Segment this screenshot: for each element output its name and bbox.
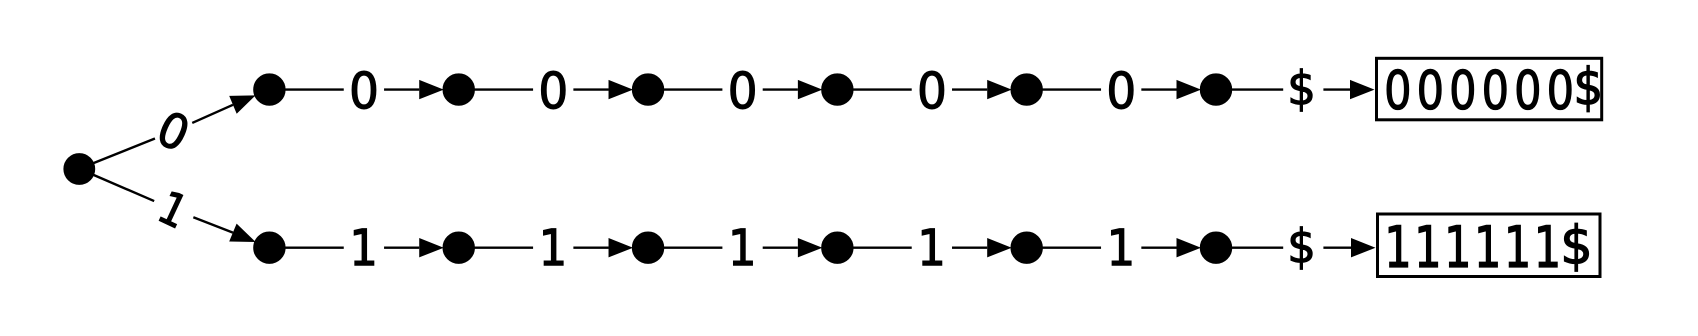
wire bottom 2-3 seg 2	[573, 246, 608, 248]
arrowhead into top node 1	[229, 95, 255, 113]
arrowhead into top node 5	[987, 80, 1012, 99]
wire bottom 5-6 seg 1	[1042, 246, 1101, 248]
top chain node 3	[633, 75, 663, 105]
wire bottom node 6 to $ label	[1231, 246, 1283, 248]
wire bottom 1-2 seg 2	[384, 246, 419, 248]
wire top node 6 to $ label	[1231, 88, 1283, 90]
edge label 1	[733, 229, 753, 265]
arrowhead into bottom node 6	[1177, 238, 1202, 257]
arrowhead into top node 6	[1177, 80, 1202, 99]
bottom chain node 3	[633, 233, 663, 263]
bottom chain node 2	[444, 233, 474, 263]
wire bottom 3-4 seg 1	[663, 246, 722, 248]
edge label 0	[731, 71, 755, 109]
top chain node 5	[1012, 75, 1042, 105]
leaf label 000000$	[1387, 65, 1599, 111]
wire top 4-5 seg 1	[852, 88, 911, 90]
edge label $ (bottom)	[1291, 227, 1312, 270]
arrowhead into top node 4	[798, 80, 823, 99]
wire bottom 1-2 seg 1	[284, 246, 343, 248]
edge label 1	[354, 229, 374, 265]
leaf label 111111$	[1389, 223, 1588, 271]
leaf box 000000$	[1377, 58, 1602, 120]
wire $ label to top box	[1323, 88, 1350, 90]
wire top 3-4 seg 1	[663, 88, 722, 90]
arrowhead into top node 3	[609, 80, 634, 99]
arrowhead into bottom node 3	[609, 238, 634, 257]
top chain node 6	[1201, 75, 1231, 105]
arrowhead into bottom box	[1351, 238, 1376, 257]
top chain node 2	[444, 75, 474, 105]
edge label 1	[1112, 229, 1132, 265]
wire $ label to bottom box	[1323, 246, 1351, 248]
wire top 5-6 seg 1	[1042, 88, 1101, 90]
wire bottom 3-4 seg 2	[763, 246, 798, 248]
edge label 0	[920, 71, 944, 109]
wire bottom 5-6 seg 2	[1141, 246, 1176, 248]
edge root to top chain, segment 2	[192, 105, 233, 123]
wire bottom 4-5 seg 2	[952, 246, 987, 248]
wire top 5-6 seg 2	[1141, 88, 1176, 90]
root node	[65, 154, 94, 183]
leaf box 111111$	[1378, 214, 1601, 277]
edge root to bottom chain, segment 1	[93, 175, 154, 201]
edge label 0	[1109, 71, 1133, 109]
wire bottom 2-3 seg 1	[474, 246, 533, 248]
edge label 1	[922, 229, 942, 265]
top chain node 1	[254, 75, 284, 105]
wire top 3-4 seg 2	[763, 88, 798, 90]
edge label 1 (sloped)	[159, 191, 189, 228]
edge label $ (top)	[1291, 69, 1312, 112]
edge root to bottom chain, segment 2	[193, 217, 233, 232]
arrowhead into bottom node 5	[987, 238, 1012, 257]
edge label 0	[352, 71, 376, 109]
wire top 4-5 seg 2	[952, 88, 987, 90]
bottom chain node 6	[1201, 233, 1231, 263]
bottom chain node 4	[822, 233, 852, 263]
wire top 1-2 seg 1	[284, 88, 343, 90]
top chain node 4	[822, 75, 852, 105]
wire bottom 4-5 seg 1	[852, 246, 911, 248]
edge label 0 (sloped)	[156, 110, 191, 152]
arrowhead into top box	[1350, 80, 1375, 99]
edge root to top chain, segment 1	[93, 138, 155, 163]
arrowhead into bottom node 2	[419, 238, 444, 257]
arrowhead into top node 2	[419, 80, 444, 99]
bottom chain node 5	[1012, 233, 1042, 263]
edge label 1	[544, 229, 564, 265]
wire top 2-3 seg 1	[474, 88, 533, 90]
bottom chain node 1	[254, 233, 284, 263]
wire top 2-3 seg 2	[573, 88, 608, 90]
arrowhead into bottom node 1	[229, 224, 255, 242]
wire top 1-2 seg 2	[384, 88, 419, 90]
arrowhead into bottom node 4	[798, 238, 823, 257]
edge label 0	[541, 71, 565, 109]
